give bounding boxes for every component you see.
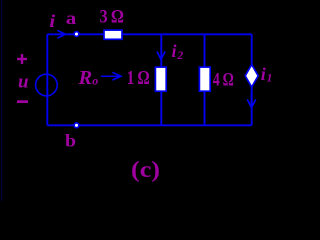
arrow current i xyxy=(58,31,65,38)
resistor 3ohm xyxy=(104,30,122,39)
arrow Ro equivalent resistance xyxy=(102,73,121,80)
wire top xyxy=(47,33,251,35)
svg-text:3 Ω: 3 Ω xyxy=(100,7,125,28)
svg-text:b: b xyxy=(65,131,76,151)
label minus xyxy=(17,100,28,103)
svg-text:a: a xyxy=(66,8,77,28)
svg-text:u: u xyxy=(18,72,29,93)
resistor 1ohm xyxy=(155,67,166,91)
wire left xyxy=(46,34,48,125)
voltage source U circle xyxy=(36,74,58,96)
svg-text:(c): (c) xyxy=(131,157,160,182)
wire branch 4ohm xyxy=(204,34,206,125)
resistor 4ohm xyxy=(199,67,210,91)
svg-text:i: i xyxy=(49,11,55,31)
svg-text:4 Ω: 4 Ω xyxy=(213,70,234,91)
svg-text:1 Ω: 1 Ω xyxy=(127,67,150,89)
wire branch right source xyxy=(251,34,253,125)
border line left edge xyxy=(1,0,2,201)
wire bottom xyxy=(47,124,251,126)
node a terminal xyxy=(74,32,79,37)
arrow i2 on 1ohm branch xyxy=(157,52,165,60)
arrow of source current direction xyxy=(248,94,256,108)
wire branch 1ohm xyxy=(160,34,162,125)
dependent current source i1 diamond xyxy=(245,65,258,87)
label plus xyxy=(17,54,27,64)
node b terminal xyxy=(74,123,79,128)
